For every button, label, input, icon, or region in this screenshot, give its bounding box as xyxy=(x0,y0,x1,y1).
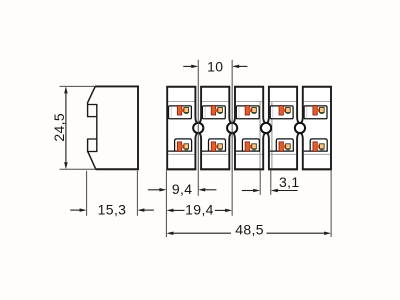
svg-text:15,3: 15,3 xyxy=(98,201,127,217)
extension line module 3 right (3,1) xyxy=(259,170,261,194)
terminal module 3 body xyxy=(235,87,263,170)
module 1 left edge xyxy=(166,87,168,170)
module 1 upper clamp cavity xyxy=(169,106,192,119)
extension line module 5 right edge xyxy=(330,170,332,237)
module 4 lower separator line xyxy=(270,153,296,155)
terminal module 4 body xyxy=(269,87,297,170)
module 2 lower separator line xyxy=(202,153,228,155)
module 1 top edge xyxy=(166,86,196,88)
module 3 upper cage-clamp contact xyxy=(245,106,256,115)
side view inner wall xyxy=(96,104,98,152)
module 4 bottom edge xyxy=(268,168,298,170)
module 1 upper cage-clamp contact xyxy=(177,106,188,115)
dimension 9,4 arrows xyxy=(148,188,217,192)
module 1 lower clamp cavity xyxy=(168,139,192,151)
module 2 left edge with neck cutouts xyxy=(199,87,201,170)
module 5 left edge with neck cutouts xyxy=(301,87,303,170)
module 5 upper cage-clamp contact xyxy=(313,106,324,115)
dimension 19,4 line and arrows xyxy=(166,209,232,213)
module 2 lower cage-clamp contact xyxy=(211,142,222,151)
module 5 upper separator line xyxy=(304,100,330,102)
svg-text:10: 10 xyxy=(207,58,223,74)
module 5 right edge xyxy=(330,87,332,170)
module 4 right edge with neck cutouts xyxy=(297,87,299,170)
module 2 top edge xyxy=(200,86,230,88)
module 5 lower separator line xyxy=(304,153,330,155)
side view lower mounting notch xyxy=(88,139,97,153)
terminal module 1 body xyxy=(167,87,195,170)
svg-text:9,4: 9,4 xyxy=(172,181,193,197)
module 2 bottom edge xyxy=(200,168,230,170)
extension line right (15,3) xyxy=(136,171,138,216)
module 5 top edge xyxy=(302,86,332,88)
side view body outline xyxy=(88,85,138,170)
svg-text:19,4: 19,4 xyxy=(185,202,214,218)
module 5 lower cage-clamp contact xyxy=(313,142,324,151)
extension line gap 1 centre (10 / 9,4) xyxy=(197,60,199,196)
module 1 upper separator line xyxy=(168,100,194,102)
terminal module 2 body xyxy=(201,87,229,170)
extension line top (24,5) xyxy=(60,85,96,87)
module 1 lower cage-clamp contact xyxy=(177,142,188,151)
module 1 right edge with neck cutouts xyxy=(195,87,197,170)
module 3 upper separator line xyxy=(236,100,262,102)
module 4 upper clamp cavity xyxy=(270,106,293,119)
module 4 lower clamp cavity xyxy=(270,139,294,151)
module 2 lower clamp cavity xyxy=(202,139,226,151)
module 2 right edge with neck cutouts xyxy=(229,87,231,170)
dimension 10 arrows xyxy=(183,65,247,69)
extension line module 1 left edge xyxy=(165,170,167,237)
module 3 lower clamp cavity xyxy=(236,139,260,151)
module 5 lower clamp cavity xyxy=(304,139,328,151)
module 2 upper separator line xyxy=(202,100,228,102)
extension line module 4 left (3,1) xyxy=(270,170,272,194)
module 3 right edge with neck cutouts xyxy=(263,87,265,170)
fixing circle between module 2 and 3 xyxy=(227,123,237,133)
module 1 bottom edge xyxy=(166,168,196,170)
module 4 lower cage-clamp contact xyxy=(279,142,290,151)
module 3 left edge with neck cutouts xyxy=(233,87,235,170)
dimension 24,5 arrows xyxy=(64,86,68,169)
module 3 lower separator line xyxy=(236,153,262,155)
extension line bottom (24,5) xyxy=(60,168,96,170)
hidden partition line right (3,1) xyxy=(271,102,273,168)
fixing circle between module 3 and 4 xyxy=(261,123,271,133)
module 3 upper clamp cavity xyxy=(236,106,259,119)
module 2 upper cage-clamp contact xyxy=(211,106,222,115)
terminal module 5 body xyxy=(303,87,331,170)
side view upper mounting notch xyxy=(88,102,97,117)
module 4 left edge with neck cutouts xyxy=(267,87,269,170)
dimension 48,5 line and arrows xyxy=(166,231,331,235)
svg-text:48,5: 48,5 xyxy=(235,221,264,237)
hidden partition line left (3,1) xyxy=(259,102,261,168)
module 4 upper cage-clamp contact xyxy=(279,106,290,115)
fixing circle between module 1 and 2 xyxy=(193,123,203,133)
module 2 upper clamp cavity xyxy=(202,106,225,119)
module 1 lower separator line xyxy=(168,153,194,155)
module 4 top edge xyxy=(268,86,298,88)
module 3 top edge xyxy=(234,86,264,88)
svg-text:3,1: 3,1 xyxy=(279,174,300,190)
dimension 15,3 arrows xyxy=(70,208,154,212)
fixing circle between module 4 and 5 xyxy=(295,123,305,133)
dimension 3,1 arrows xyxy=(242,189,298,193)
extension line left (15,3) xyxy=(86,171,88,216)
module 3 lower cage-clamp contact xyxy=(245,142,256,151)
module 4 upper separator line xyxy=(270,100,296,102)
svg-text:24,5: 24,5 xyxy=(51,113,67,142)
module 3 bottom edge xyxy=(234,168,264,170)
module 5 bottom edge xyxy=(302,168,332,170)
extension line gap 2 centre (10 / 19,4) xyxy=(231,60,233,216)
module 5 upper clamp cavity xyxy=(304,106,327,119)
